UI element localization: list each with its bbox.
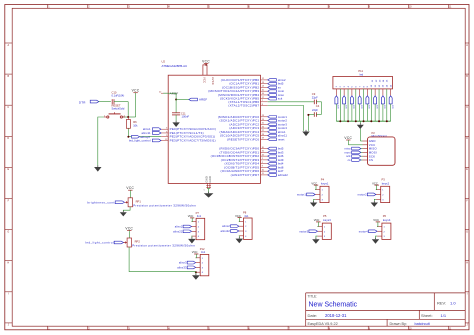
svg-text:adtray2: adtray2 xyxy=(140,135,150,139)
wire C10 to reset node xyxy=(114,102,128,117)
ground crystal caps xyxy=(302,130,309,136)
svg-text:REV:: REV: xyxy=(437,300,446,305)
pin PD (XCK0/T0/PTCXY)PD4 pin2 with net flag led4 xyxy=(224,162,283,166)
svg-text:1.0: 1.0 xyxy=(450,300,456,305)
pin PB (MOSI0/TXD1/OC2A/PTCXY)PB3 pin15 with net flag mosi xyxy=(208,89,284,93)
svg-text:alinx33: alinx33 xyxy=(177,265,187,269)
title block Date xyxy=(308,313,348,318)
wire crystal right vertical xyxy=(321,102,323,115)
svg-text:Sheet:: Sheet: xyxy=(421,313,433,318)
svg-text:motor1: motor1 xyxy=(297,192,306,196)
svg-text:led_light_control: led_light_control xyxy=(129,139,151,143)
net flag mosi at P2 xyxy=(344,150,362,154)
wire RP2 to P12 xyxy=(129,247,196,272)
svg-text:P4: P4 xyxy=(321,177,325,181)
mcu U2 ATMEGA328PB-AU body xyxy=(168,75,260,183)
svg-text:(RESET/PTCXY)PC6: (RESET/PTCXY)PC6 xyxy=(227,137,259,141)
svg-text:led4: led4 xyxy=(278,162,284,166)
svg-text:Drawn By:: Drawn By: xyxy=(390,322,408,326)
svg-text:2018-12-31: 2018-12-31 xyxy=(325,313,347,318)
svg-text:motor2: motor2 xyxy=(278,119,287,123)
svg-text:alinx22: alinx22 xyxy=(173,229,183,233)
svg-text:led7: led7 xyxy=(278,169,284,173)
svg-text:100nF: 100nF xyxy=(182,115,190,119)
svg-text:motor2: motor2 xyxy=(358,192,367,196)
svg-text:(XTAL2/TOSC2)PB7: (XTAL2/TOSC2)PB7 xyxy=(228,104,259,108)
switch RESET SwitchSold xyxy=(104,103,126,118)
svg-text:VCC: VCC xyxy=(125,226,133,230)
svg-text:alinx1: alinx1 xyxy=(278,130,286,134)
node reset junction xyxy=(127,116,129,118)
svg-text:22pF: 22pF xyxy=(312,96,318,100)
svg-text:P5: P5 xyxy=(323,214,327,218)
svg-text:C9: C9 xyxy=(312,92,316,96)
svg-text:4x1: 4x1 xyxy=(197,214,202,218)
svg-text:VCC: VCC xyxy=(311,181,317,185)
svg-text:P3: P3 xyxy=(382,177,386,181)
wire DTR to C10 xyxy=(99,101,111,103)
title block title text New Schematic xyxy=(309,301,358,308)
svg-text:sck: sck xyxy=(346,154,351,158)
op U2 refdes label xyxy=(162,60,166,64)
pin PC (RESET/PTCXY)PC6 pin29 with net flag reset xyxy=(227,137,285,141)
potentiometer RP2 xyxy=(85,226,195,247)
svg-text:10k: 10k xyxy=(133,124,138,128)
svg-text:keys2: keys2 xyxy=(382,181,390,185)
connector P5 keys3 xyxy=(299,214,331,244)
resistor R6 10k xyxy=(126,117,138,137)
pin AVCC pin18 rotated label xyxy=(211,77,215,85)
pin PC (ADC3/PTCXY)PC3 pin26 with net flag motor4 xyxy=(229,126,287,130)
connector P11 body xyxy=(333,77,393,89)
svg-text:keys4: keys4 xyxy=(383,218,391,222)
svg-text:4x1: 4x1 xyxy=(244,214,249,218)
resistor array R for P11 (8x 220) xyxy=(335,89,393,121)
wire AREF node to flag xyxy=(176,99,189,101)
svg-text:VCC: VCC xyxy=(344,136,352,140)
wire U2 GND pins to ground xyxy=(204,183,211,193)
svg-text:motor3: motor3 xyxy=(278,122,287,126)
connector P2 body xyxy=(368,137,396,165)
title block Drawn By xyxy=(390,322,431,326)
wire C11 to ground xyxy=(175,115,177,121)
svg-text:led9: led9 xyxy=(278,158,284,162)
pin PD (TXD0/OC4A/PTCXY)PD1 pin31 with net flag led3 xyxy=(220,150,284,154)
svg-text:alinx3: alinx3 xyxy=(179,261,187,265)
svg-text:alinx2: alinx2 xyxy=(222,224,230,228)
svg-text:motor1: motor1 xyxy=(278,115,287,119)
node R6 bottom junction xyxy=(127,136,129,138)
svg-text:mosi: mosi xyxy=(278,89,284,93)
svg-text:VCC: VCC xyxy=(203,77,207,83)
svg-text:0.1uF(104): 0.1uF(104) xyxy=(112,93,125,97)
pin PD (OC3B/OC4B/INT0/PTCXY)PD2 pin32 with net flag led6 xyxy=(211,154,284,158)
svg-text:GND: GND xyxy=(205,176,209,183)
svg-text:brightness_contr: brightness_contr xyxy=(87,200,116,204)
svg-text:22pF: 22pF xyxy=(312,108,318,112)
svg-text:led: led xyxy=(360,73,364,77)
wire C4 left lead xyxy=(308,114,314,130)
wire AREF to node xyxy=(163,93,176,99)
wire PE2 row from R6 node xyxy=(128,136,161,138)
pin PE2(PTCXY/ADC6/ICP3/SS1) pin9 xyxy=(161,135,215,139)
title block TITLE label xyxy=(308,294,318,298)
net flag AREF xyxy=(189,98,208,102)
pin PD (OC2B/INT1/PTCXY)PD3 pin1 with net flag led9 xyxy=(221,158,284,162)
capacitor C11 100nF xyxy=(172,111,189,118)
title block REV xyxy=(437,300,456,305)
svg-text:VCC: VCC xyxy=(126,186,134,190)
svg-text:H: H xyxy=(7,262,9,265)
svg-text:miso: miso xyxy=(278,93,285,97)
svg-text:keys1: keys1 xyxy=(321,181,329,185)
svg-text:VCC: VCC xyxy=(235,214,241,218)
wire AREF node to C11 xyxy=(175,100,177,113)
svg-text:led6: led6 xyxy=(278,154,284,158)
svg-text:motor3: motor3 xyxy=(299,229,308,233)
pin PB (CLKO/ICP1/PTCXY)PB0 pin12 with net flag alinx2 xyxy=(221,78,286,82)
ground below U2 xyxy=(204,192,214,198)
svg-text:TITLE:: TITLE: xyxy=(308,294,318,298)
wire VCC to node xyxy=(123,116,135,118)
svg-text:led_light_control: led_light_control xyxy=(85,241,114,245)
net flag sck at P2 xyxy=(346,154,362,158)
svg-text:D: D xyxy=(466,137,468,140)
capacitor C9 22pF xyxy=(312,92,318,104)
wire ground to P2 GND xyxy=(360,129,362,141)
svg-text:reset: reset xyxy=(278,137,285,141)
connector P11 led labels xyxy=(358,69,363,76)
pin PE3(PTCXY/ADC7/T3/MOSI1) pin12 xyxy=(161,138,216,142)
wire XTAL1 to C9 xyxy=(268,101,314,103)
pin PB (OC1B/SS0/PTCXY)PB2 pin14 with net flag ss xyxy=(222,85,281,89)
svg-text:GND: GND xyxy=(208,176,212,183)
svg-text:sck: sck xyxy=(278,97,283,101)
svg-text:keys3: keys3 xyxy=(323,218,331,222)
pin PC (MISO1/ADC0/PTCXY)PC0 pin23 with net flag motor1 xyxy=(218,115,288,119)
wire XTAL2 down xyxy=(268,106,304,131)
title block lines xyxy=(306,293,466,326)
pin PE1(PTCXY/SCL1/T4) pin6 xyxy=(141,131,203,135)
svg-text:alinx11: alinx11 xyxy=(141,131,151,135)
svg-text:alinx22: alinx22 xyxy=(221,229,231,233)
svg-text:Precision potentiometer 3296W/: Precision potentiometer 3296W/50ohm xyxy=(133,203,196,207)
pin PB (SCK0/XCK1/PTCXY)PB5 pin17 with net flag sck xyxy=(220,97,283,101)
svg-text:P11: P11 xyxy=(358,69,363,73)
pin PD (AIN1/PTCXY)PD7 pin11 with net flag adtra22 xyxy=(231,173,289,177)
connector P2 pins GND VCC MISO MOSI SCK CS xyxy=(363,139,378,162)
svg-text:AVCC: AVCC xyxy=(211,77,215,85)
title block EasyEDA version xyxy=(308,322,338,326)
wire RP1 to ground xyxy=(120,207,130,217)
node P12 pin4 junction xyxy=(195,271,197,273)
wire P12 pin4 to ground xyxy=(192,272,200,280)
connector P6 keys4 xyxy=(359,214,391,244)
wire VCC pin split xyxy=(203,65,207,75)
P11 pin numbers xyxy=(336,79,392,87)
wire P7 pin4 to ground xyxy=(188,236,196,243)
pin GND rotated labels xyxy=(205,176,213,183)
capacitor C4 22pF xyxy=(312,104,320,117)
pin PB (OC1A/PTCXY)PB1 pin13 with net flag led5 xyxy=(229,82,284,86)
net flag miso at P2 xyxy=(344,147,362,151)
pin PC (SCL0/ADC5/PTCXY)PC5 pin28 with net flag alinx11 xyxy=(220,134,288,138)
pin VCC pin4 rotated label xyxy=(203,77,207,83)
svg-text:motor4: motor4 xyxy=(278,126,287,130)
connector P4 keys1 xyxy=(297,177,329,207)
svg-text:(AIN1/PTCXY)PD7: (AIN1/PTCXY)PD7 xyxy=(231,173,260,177)
svg-text:EasyEDA V5.9.22: EasyEDA V5.9.22 xyxy=(308,322,338,326)
pin PE0(PTCXY/SDA1/ICP4/ACO) pin3 xyxy=(143,127,216,131)
pin PB7 XTAL2 pin8 xyxy=(228,104,267,108)
svg-text:4x1: 4x1 xyxy=(201,250,206,254)
svg-text:1/1: 1/1 xyxy=(441,313,447,318)
net flag DTR xyxy=(79,100,99,104)
U2 part name ATMEGA328PB-AU xyxy=(162,64,188,68)
svg-text:miso: miso xyxy=(344,147,351,151)
svg-text:AREF: AREF xyxy=(199,98,207,102)
svg-text:CS: CS xyxy=(369,158,373,162)
svg-text:D: D xyxy=(7,137,9,140)
nodes LED bus junctions xyxy=(339,120,388,122)
connector P12 4x1 xyxy=(177,247,209,276)
svg-text:C: C xyxy=(7,106,9,109)
connector P7 4x1 xyxy=(173,211,205,240)
svg-text:adtra22: adtra22 xyxy=(278,173,288,177)
svg-text:ATMEGA328PB-AU: ATMEGA328PB-AU xyxy=(162,64,188,68)
net flag adtray2 on PE2 row xyxy=(132,135,151,139)
svg-text:SwitchSold: SwitchSold xyxy=(112,106,125,110)
svg-text:New Schematic: New Schematic xyxy=(309,301,358,308)
svg-text:alinx1: alinx1 xyxy=(143,127,151,131)
net label led_light_control row PE3 xyxy=(129,139,161,143)
node AREF junction xyxy=(175,99,177,101)
svg-text:led5: led5 xyxy=(278,82,284,86)
svg-text:C4: C4 xyxy=(316,104,320,108)
pin PC (ADC2/PTCXY)PC2 pin25 with net flag motor3 xyxy=(229,122,287,126)
ground below reset switch xyxy=(94,165,101,171)
svg-text:led5: led5 xyxy=(278,147,284,151)
pin PC (SCK1/ADC1/PTCXY)PC1 pin24 with net flag motor2 xyxy=(220,119,288,123)
pin PD (RXD0/OC3A/PTCXY)PD0 pin30 with net flag led5 xyxy=(219,147,284,151)
svg-text:Date:: Date: xyxy=(308,313,318,318)
pin PD (OC0A/AIN0/PTCXY)PD6 pin10 with net flag led7 xyxy=(221,169,284,173)
wire switch pin1 to ground xyxy=(98,117,104,166)
svg-text:G: G xyxy=(7,230,9,233)
pin AREF pin22 xyxy=(159,91,178,95)
wire P8 pin4 to ground xyxy=(236,236,244,243)
wire C4 right lead xyxy=(316,113,321,115)
svg-text:alinx2: alinx2 xyxy=(278,78,286,82)
svg-text:C: C xyxy=(466,106,468,109)
svg-text:H: H xyxy=(466,262,468,265)
pin PD (OC0B/T1/PTCXY)PD5 pin9 with net flag led8 xyxy=(224,165,284,169)
svg-text:G: G xyxy=(466,230,468,233)
svg-text:mosi: mosi xyxy=(344,150,350,154)
potentiometer RP1 xyxy=(87,186,196,207)
wires P11 direct pins to bus xyxy=(340,89,387,121)
node C4 junction xyxy=(307,114,309,116)
svg-text:alinx2: alinx2 xyxy=(175,225,183,229)
capacitor C10 0.1uF(104) xyxy=(112,90,125,104)
svg-text:VCC: VCC xyxy=(132,89,140,93)
svg-text:VCC: VCC xyxy=(202,59,210,63)
svg-text:VCC: VCC xyxy=(372,181,378,185)
ground below C11 xyxy=(172,121,179,127)
connector P8 4x1 xyxy=(221,211,253,240)
title block Sheet xyxy=(421,313,447,318)
svg-text:PE3(PTCXY/ADC7/T3/MOSI1): PE3(PTCXY/ADC7/T3/MOSI1) xyxy=(170,138,216,142)
wire LED bus xyxy=(336,120,390,122)
svg-text:cs: cs xyxy=(348,159,351,162)
pin PC (SDA0/ADC4/PTCXY)PC4 pin27 with net flag alinx1 xyxy=(220,130,286,134)
ground LED bus xyxy=(357,121,364,129)
power flag VCC reset xyxy=(132,89,140,117)
svg-text:VCC: VCC xyxy=(192,250,198,254)
svg-text:Precision potentiometer 3296W/: Precision potentiometer 3296W/50ohm xyxy=(132,244,195,248)
connector P2 labels xyxy=(372,131,388,138)
wire C9 right lead xyxy=(316,101,321,103)
svg-text:motor4: motor4 xyxy=(359,229,368,233)
pin PB (MISO0/RXD1/PTCXY)PB4 pin16 with net flag miso xyxy=(218,93,284,97)
power flag VCC above U2 xyxy=(202,59,210,65)
svg-text:led8: led8 xyxy=(278,165,284,169)
svg-text:P6: P6 xyxy=(383,214,387,218)
svg-text:DTR: DTR xyxy=(79,100,86,104)
power flag VCC at P2 xyxy=(344,136,362,145)
connector P3 keys2 xyxy=(358,177,390,207)
svg-text:led3: led3 xyxy=(278,150,284,154)
pin PB6 XTAL1 pin7 xyxy=(228,100,267,104)
svg-text:batcircuit: batcircuit xyxy=(415,322,431,326)
net flag cs at P2 xyxy=(348,159,363,162)
svg-text:alinx11: alinx11 xyxy=(278,134,288,138)
